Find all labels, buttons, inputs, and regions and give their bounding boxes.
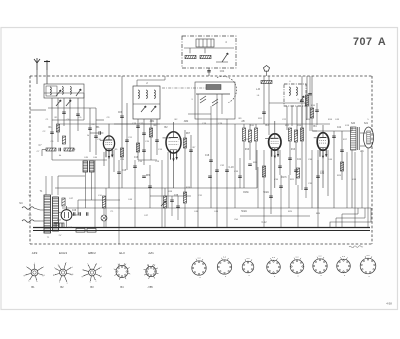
aux connector pin 1 — [198, 39, 200, 47]
capacitor C12 padder — [136, 126, 140, 127]
capacitor C09 — [120, 116, 124, 117]
tuning gang rotor arc (dashed) — [217, 76, 237, 102]
svg-text:C-18: C-18 — [229, 167, 235, 169]
wire drop m — [288, 175, 290, 208]
svg-text:50kΩ: 50kΩ — [241, 211, 247, 213]
osc top link — [137, 79, 165, 81]
resistor R13 — [294, 130, 297, 142]
wire drop l — [280, 175, 282, 227]
resistor R17 — [340, 162, 343, 171]
capacitor C37 feedthrough — [308, 94, 312, 95]
valve base diagram AZ1 — [144, 264, 159, 279]
wire drop f — [161, 160, 163, 227]
resistor R6 — [149, 128, 152, 137]
capacitor C27 — [142, 176, 146, 177]
coil unit base diagram 3 — [242, 258, 254, 277]
capacitor C42 — [332, 136, 336, 137]
capacitor C10 — [99, 131, 100, 135]
capacitor C26 — [117, 172, 121, 173]
coil L4 — [138, 90, 139, 98]
wire R11 bottom — [255, 141, 257, 170]
capacitor C35 — [304, 188, 308, 189]
svg-text:AB2: AB2 — [184, 120, 189, 123]
wire drop t — [361, 150, 363, 208]
capacitor C23 — [288, 158, 292, 159]
wire EBF2 cathode down — [274, 152, 276, 188]
power transformer secondary winding — [53, 197, 59, 231]
band switch S2 — [56, 100, 61, 106]
capacitor C24 — [294, 170, 298, 171]
capacitor C48b — [87, 212, 88, 216]
coil unit base diagram 1 — [192, 257, 206, 279]
capacitor C18 — [209, 160, 213, 161]
wire drop u — [367, 148, 369, 227]
svg-text:B3: B3 — [90, 285, 94, 289]
wire R23 down — [103, 208, 105, 215]
wire OT to speaker top — [360, 132, 366, 134]
svg-text:s: s — [43, 266, 44, 268]
earth lead — [46, 70, 48, 84]
RF pentode tube AF9 (B1) — [100, 136, 115, 159]
chassis boundary left (dashed) — [29, 76, 31, 244]
wire AF9 pin2 — [103, 152, 105, 166]
capacitor C28 — [148, 186, 152, 187]
svg-text:k: k — [59, 281, 60, 283]
svg-text:C41: C41 — [297, 159, 302, 161]
wire EL3 top — [322, 125, 324, 133]
RF section bus 1 — [48, 107, 96, 109]
valve base diagram EBF2 — [82, 263, 103, 284]
trimmer CT2 — [212, 99, 218, 106]
resistor R19 — [183, 192, 186, 203]
capacitor C22 — [278, 166, 282, 167]
wire EBF2 grid — [274, 121, 276, 134]
svg-text:R13: R13 — [291, 149, 296, 151]
band switch S6 — [300, 96, 304, 102]
wire aux unit to chassis top — [208, 68, 210, 76]
capacitor C47 — [79, 212, 80, 216]
mains lead to primary — [34, 220, 40, 222]
output pentode tube EL3 (B4) — [314, 133, 329, 159]
wire gang stator 1 up — [197, 94, 199, 119]
resistor R10 — [248, 130, 251, 142]
svg-text:S21: S21 — [364, 122, 369, 125]
triode-hexode tube ECH3 (B2) — [163, 132, 182, 161]
capacitor C46b — [74, 212, 75, 216]
capacitor C29 — [170, 200, 174, 201]
wire RF net d — [69, 98, 71, 152]
aux connector block — [196, 39, 214, 47]
resistor R20 — [262, 166, 265, 177]
resistor R4 — [64, 148, 74, 151]
pilot lamp — [101, 215, 107, 221]
svg-text:B4: B4 — [120, 285, 124, 289]
power transformer core — [44, 195, 51, 233]
coil L3 — [70, 87, 71, 95]
wire EL3 pin a — [317, 150, 319, 208]
wire to R3 — [42, 149, 46, 151]
wire transformer top b — [51, 176, 53, 195]
capacitor C25 — [300, 100, 304, 101]
wire mixer net a — [184, 130, 186, 196]
coil unit base diagram 5 — [290, 256, 304, 277]
capacitor C7 — [59, 148, 60, 152]
RF mesh lower bus — [52, 159, 107, 161]
transformer top link — [58, 175, 85, 177]
wire transformer top a — [45, 176, 47, 195]
filter capacitor C46 (electrolytic) — [89, 161, 94, 172]
chassis rail upper — [33, 227, 370, 229]
resistor R22 (aux) — [185, 55, 196, 58]
svg-text:C18: C18 — [205, 155, 210, 157]
svg-text:R10: R10 — [245, 149, 250, 151]
wire gang rotor down — [216, 119, 218, 227]
svg-text:AB: AB — [241, 120, 245, 123]
wire HT rail b — [306, 76, 308, 120]
wire drop d — [134, 160, 136, 227]
oscillator coil unit — [133, 86, 160, 119]
svg-text:ECH3: ECH3 — [59, 251, 67, 255]
wire aux switch row — [216, 61, 228, 63]
wire to primary tap — [40, 209, 44, 211]
return loop 1 — [330, 208, 371, 228]
wire drop h — [234, 124, 236, 208]
capacitor C64 (aux drop) — [207, 71, 211, 72]
wire aerial to mesh — [83, 93, 85, 98]
wire lamp to chassis — [103, 221, 105, 228]
AVC bus main — [60, 123, 330, 125]
rectifier tube AZ1 (B5) — [61, 206, 72, 220]
wire drop a — [94, 160, 96, 227]
aerial coil sub-box — [46, 86, 57, 96]
svg-text:L-M: L-M — [256, 89, 260, 91]
capacitor C5 — [76, 114, 80, 115]
wire AZ1 output — [72, 214, 78, 216]
auxiliary unit enclosure (dash-dot) — [182, 36, 236, 68]
earth terminal — [44, 60, 50, 70]
wire AF9 grid top — [108, 124, 110, 136]
wire R12 bottom — [289, 141, 291, 175]
wire gang rotor — [216, 94, 218, 119]
svg-text:B4: B4 — [313, 124, 317, 128]
wire RF net g — [89, 108, 91, 152]
wire drop p — [311, 150, 313, 208]
resistor R2 — [62, 136, 65, 144]
duo-diode pentode tube EBF2 (B3) — [265, 134, 281, 158]
band switch S1 — [76, 89, 81, 96]
resistor R16 — [310, 108, 313, 118]
wire gang stator 1 down — [197, 119, 199, 227]
valve base diagram AF9 — [24, 263, 46, 283]
wire drop i — [239, 158, 241, 188]
output stage top bus — [313, 130, 352, 132]
resistor R12 — [288, 128, 291, 141]
svg-text:B1: B1 — [31, 285, 35, 289]
coil L2 — [62, 87, 63, 95]
svg-text:d: d — [100, 267, 101, 269]
wire drop r — [346, 152, 348, 208]
aux connector pin 4 — [210, 39, 212, 47]
wire aux R22 to bus — [189, 48, 191, 53]
svg-text:R07: R07 — [186, 133, 191, 135]
switch S8 (aux) — [222, 53, 228, 62]
wire C10 to AF9 — [100, 132, 103, 134]
wire AZ1 to filter — [77, 200, 79, 215]
capacitor C16b — [133, 166, 137, 167]
RF section bus 2 — [52, 119, 84, 121]
wire HT winding to AZ1 — [59, 212, 62, 213]
wire drop q — [317, 160, 319, 227]
wire RF net a — [51, 98, 53, 160]
wire R10 bottom — [249, 142, 251, 160]
shield box right edge — [256, 150, 258, 188]
wire drop j — [257, 167, 259, 208]
wire R10 top — [249, 124, 251, 130]
svg-text:d: d — [71, 267, 72, 269]
wire node C down — [266, 71, 268, 76]
band switch S5 — [151, 106, 156, 112]
svg-text:C15: C15 — [122, 170, 127, 172]
loudspeaker LS — [364, 127, 374, 148]
aerial coil unit L1/L2 — [44, 84, 84, 98]
wire C46 down — [91, 172, 93, 200]
svg-text:C-12: C-12 — [262, 222, 268, 224]
svg-text:C16: C16 — [134, 157, 139, 159]
svg-text:S17: S17 — [57, 220, 62, 222]
capacitor C31 — [208, 176, 212, 177]
svg-text:C42: C42 — [337, 127, 342, 129]
HT bus y208 — [62, 207, 371, 209]
output transformer S20 — [351, 127, 360, 150]
svg-text:707 A: 707 A — [353, 36, 386, 48]
wire to EL3 grid row — [312, 130, 317, 132]
band switch S3 — [66, 100, 71, 106]
wire RF net e — [77, 98, 79, 131]
capacitor C14 — [155, 140, 159, 141]
resistor S16 (surge) — [62, 198, 65, 206]
svg-text:R8b: R8b — [146, 175, 151, 177]
wire aux R23 to bus — [204, 48, 206, 53]
wire R13 bottom — [295, 142, 297, 185]
chassis rail lower — [33, 230, 370, 232]
wire switch unit b — [291, 106, 293, 126]
wire OT primary bottom — [351, 150, 353, 208]
wire R9 top — [243, 124, 245, 128]
AVC bus segment left — [114, 123, 160, 125]
resistor R15 — [305, 95, 308, 106]
wire C45 down — [84, 172, 86, 208]
mains lead upper — [22, 207, 34, 210]
wire osc link to border — [164, 76, 166, 80]
coil unit base diagram 4 — [267, 257, 281, 278]
capacitor C43 — [340, 150, 344, 151]
coil unit base diagram 6 — [313, 255, 327, 277]
wire IF feed a — [263, 76, 265, 124]
svg-text:4-58: 4-58 — [386, 302, 392, 306]
volume potentiometer R18 — [163, 196, 166, 208]
signature note — [349, 246, 363, 248]
wire drop c — [118, 160, 120, 244]
wire osc net b — [143, 119, 145, 165]
resistor R14 — [300, 128, 303, 141]
wire switch unit a — [286, 106, 288, 130]
svg-text:B2: B2 — [164, 125, 168, 129]
chassis boundary top (dashed) — [30, 75, 372, 77]
gang frame bar — [196, 93, 230, 95]
tuning drive drum — [206, 85, 221, 90]
osc unit internal bus — [133, 103, 160, 105]
svg-text:AZ1: AZ1 — [148, 251, 154, 255]
coil L1 — [50, 87, 51, 95]
bus line y188 — [55, 187, 257, 189]
wire C29 net — [171, 196, 173, 216]
bus segment y196 — [150, 195, 191, 197]
capacitor C32 — [225, 170, 229, 171]
tuning gang shield box — [195, 82, 235, 119]
svg-text:AB1: AB1 — [150, 120, 155, 123]
wire R9 bottom — [243, 141, 245, 188]
wire screen rail — [311, 76, 313, 131]
svg-text:B1: B1 — [96, 125, 100, 129]
wire RF net f — [83, 98, 85, 120]
wire interstage a — [121, 76, 123, 188]
wire R19 bottom — [184, 203, 186, 227]
wire osc net d — [156, 119, 158, 155]
coil unit base diagram 7 — [337, 256, 351, 277]
gang lower link — [188, 113, 211, 115]
wire ECH3 cathode down — [173, 157, 175, 188]
wire C42 branch — [333, 131, 335, 208]
wire gang frame — [221, 94, 223, 114]
wire R11 top — [255, 124, 257, 128]
wire mixer net b — [190, 135, 192, 188]
wire drop e — [149, 165, 151, 208]
wire screen rail b — [309, 76, 311, 131]
wire EL3 cathode down — [322, 152, 324, 188]
capacitor C20 — [262, 112, 266, 113]
wire interstage b — [126, 103, 128, 170]
fuse block — [76, 229, 96, 233]
resistor R23 — [102, 196, 105, 208]
band switch S1b — [56, 90, 61, 96]
return loop 2 — [336, 208, 365, 228]
capacitor C38b — [315, 110, 319, 111]
wire C10 left — [90, 132, 99, 134]
coil unit base diagram 8 — [360, 255, 376, 278]
wire to AF9 grid — [96, 119, 104, 121]
mains switch blade — [34, 208, 40, 210]
gang mechanical link (dash-dot) — [162, 87, 206, 89]
valve base diagram ECH3 — [53, 262, 74, 284]
wire gang stator 2 — [210, 106, 212, 119]
svg-text:R17b: R17b — [281, 177, 287, 179]
capacitor C34 — [279, 186, 283, 187]
capacitor C13 — [142, 133, 146, 134]
smoothed HT link — [78, 199, 120, 201]
wire AF9 pin3 — [113, 150, 115, 172]
wire IF feed b — [268, 76, 270, 135]
aux internal bus — [184, 47, 234, 49]
wire AZ1 cathode to chassis — [66, 220, 68, 227]
wire drop g — [226, 119, 228, 227]
chassis boundary bottom (dashed) — [30, 243, 372, 245]
wave switch unit (dash-dot) — [284, 84, 306, 106]
capacitor C8 — [88, 128, 92, 129]
antenna lead-in — [36, 70, 38, 84]
wire drop o — [305, 103, 307, 198]
resistor R9 — [242, 128, 245, 141]
osc net lower bus — [138, 159, 157, 161]
wire drop k — [263, 150, 265, 227]
pot wiper — [161, 201, 166, 206]
wire drop b — [105, 188, 107, 227]
junction node C — [263, 66, 269, 72]
wire EBF2 diode down — [270, 150, 272, 214]
svg-text:C64: C64 — [220, 70, 225, 73]
wire switch unit d — [301, 106, 303, 190]
coil L6 — [154, 90, 155, 98]
resistor R5 — [120, 148, 123, 157]
svg-text:B2: B2 — [60, 285, 64, 289]
wire ECH3 pin2 down — [167, 152, 169, 208]
svg-text:R16b: R16b — [243, 192, 249, 194]
svg-text:EBF2: EBF2 — [88, 251, 96, 255]
resistor R23 (aux) — [200, 55, 211, 58]
band switch S4 — [141, 106, 146, 112]
wire transformer top c — [57, 176, 59, 195]
wire R3 drop — [41, 150, 43, 157]
capacitor C21 — [248, 164, 252, 165]
coil L8 — [296, 87, 297, 95]
return loop 3 — [342, 208, 358, 228]
smoothing choke S17 — [54, 223, 64, 228]
coil L5 — [146, 90, 147, 98]
bus segment y216 — [240, 215, 310, 217]
capacitor C6 — [50, 132, 54, 133]
wire drop n — [297, 185, 299, 227]
filter capacitor C45 (electrolytic) — [83, 161, 88, 172]
wire EL3 pin b — [327, 150, 329, 196]
resistor R07 — [183, 138, 186, 148]
svg-text:S20: S20 — [351, 122, 356, 125]
capacitor C40 — [269, 196, 273, 197]
aerial unit internal bus — [44, 92, 84, 94]
wire tone branch — [341, 131, 343, 180]
earth stub to border — [30, 109, 46, 111]
resistor R21 — [296, 168, 299, 178]
wire C30 net — [177, 196, 179, 220]
wire RF net c — [63, 98, 65, 126]
wire RF net b — [57, 98, 59, 142]
coil L7 — [289, 87, 290, 95]
trimmer CT1 — [200, 96, 206, 103]
valve base diagram EL3 — [114, 263, 130, 279]
svg-text:50kΩ: 50kΩ — [263, 192, 269, 194]
resistor R8 — [261, 80, 272, 83]
capacitor C15 — [142, 150, 146, 151]
svg-text:k: k — [29, 280, 30, 282]
wire osc net c — [150, 119, 152, 160]
antenna terminal — [34, 58, 40, 70]
capacitor C11 — [125, 140, 129, 141]
chassis boundary right (dashed) — [371, 76, 373, 244]
wire C38b net — [316, 103, 318, 125]
svg-text:k: k — [90, 282, 91, 284]
wire to primary bottom — [40, 220, 44, 222]
wire osc unit up — [136, 80, 138, 86]
resistor R11 — [254, 128, 257, 141]
svg-text:C46: C46 — [72, 210, 77, 212]
